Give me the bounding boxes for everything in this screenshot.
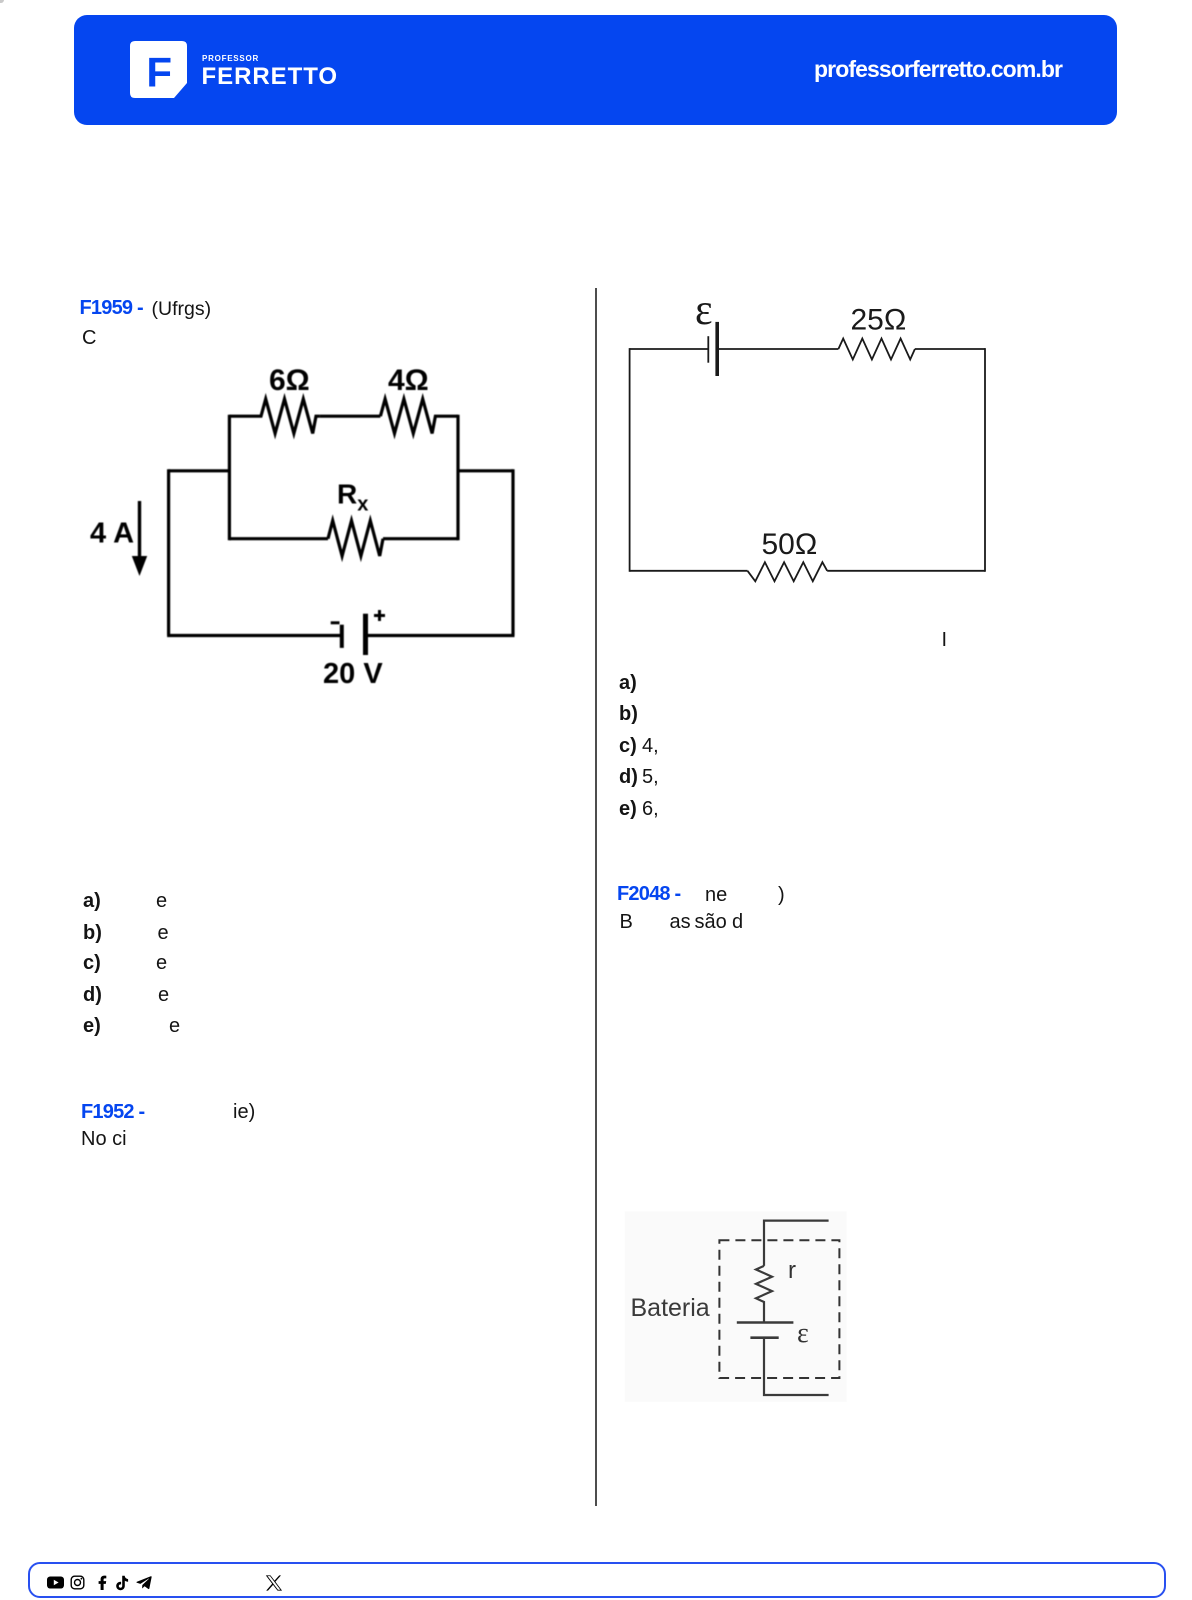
- icon x-twitter: [265, 1575, 283, 1591]
- header bar: [74, 15, 1117, 125]
- wire right: [984, 348, 986, 572]
- options F1959: [83, 891, 101, 911]
- corner smudge: [0, 0, 4, 3]
- battery plate short: [750, 1336, 778, 1339]
- svg-text:F: F: [146, 48, 172, 95]
- wire top right segment: [717, 348, 838, 350]
- wire bottom: [764, 1338, 829, 1395]
- svg-text:r: r: [788, 1257, 796, 1284]
- label I: [942, 630, 948, 650]
- wire top to corner: [915, 348, 985, 350]
- svg-text:25Ω: 25Ω: [851, 304, 907, 337]
- wire inner top middle: [320, 415, 381, 418]
- wire outer bottom: [167, 634, 514, 637]
- svg-text:6Ω: 6Ω: [269, 364, 310, 397]
- current arrow 4A: [138, 501, 141, 559]
- wire inner right: [456, 415, 459, 541]
- icon instagram: [71, 1576, 84, 1589]
- wire outer left: [167, 469, 170, 635]
- icon telegram: [136, 1576, 151, 1589]
- wire bottom right: [827, 570, 985, 572]
- battery plate long: [737, 1321, 794, 1324]
- battery 20V short plate: [340, 625, 344, 648]
- column divider: [595, 288, 597, 1506]
- resistor 25ohm: [838, 339, 915, 360]
- resistor R2 4ohm: [380, 399, 458, 433]
- icon facebook: [99, 1576, 107, 1590]
- resistor 50ohm: [748, 562, 828, 581]
- right circuit (F1952): [620, 295, 995, 590]
- battery plus sign: [374, 610, 385, 621]
- question F1959 heading: [80, 298, 143, 318]
- battery eps short plate: [707, 336, 709, 363]
- svg-text:50Ω: 50Ω: [762, 528, 818, 561]
- logo F square: [130, 41, 188, 99]
- wire bottom left: [630, 570, 748, 572]
- dashed battery box: [719, 1240, 839, 1378]
- svg-text:ε: ε: [797, 1318, 809, 1349]
- header url: [814, 58, 1062, 81]
- icon tiktok: [116, 1576, 128, 1590]
- wire top: [764, 1221, 829, 1266]
- question F1952 heading: [81, 1102, 144, 1122]
- footer icons: [46, 1574, 296, 1592]
- icon youtube: [47, 1577, 64, 1589]
- left circuit F1959: [80, 360, 520, 695]
- battery eps long plate: [715, 322, 719, 376]
- resistor R1 6ohm: [229, 399, 319, 433]
- svg-text:ε: ε: [695, 295, 713, 334]
- wire inner left: [228, 415, 231, 541]
- wire outer right: [511, 469, 514, 635]
- svg-text:Rx: Rx: [337, 479, 368, 516]
- wire top left: [630, 348, 709, 350]
- wire outer top: [169, 469, 513, 472]
- wire inner bottom left: [229, 537, 328, 540]
- battery minus sign: [331, 621, 340, 624]
- options F1952: [619, 673, 637, 693]
- logo wordmark: [202, 55, 259, 63]
- wire left: [629, 348, 631, 572]
- svg-text:20 V: 20 V: [323, 658, 383, 690]
- battery 20V long plate: [363, 614, 368, 655]
- resistor Rx: [328, 521, 383, 556]
- battery figure panel: [610, 1190, 880, 1420]
- question F2048 heading: [617, 884, 680, 904]
- svg-text:4 A: 4 A: [90, 518, 134, 550]
- svg-text:4Ω: 4Ω: [388, 364, 429, 397]
- svg-text:Bateria: Bateria: [631, 1294, 710, 1322]
- resistor r: [756, 1266, 772, 1323]
- wire inner bottom right: [383, 537, 458, 540]
- footer bar: [28, 1562, 1166, 1598]
